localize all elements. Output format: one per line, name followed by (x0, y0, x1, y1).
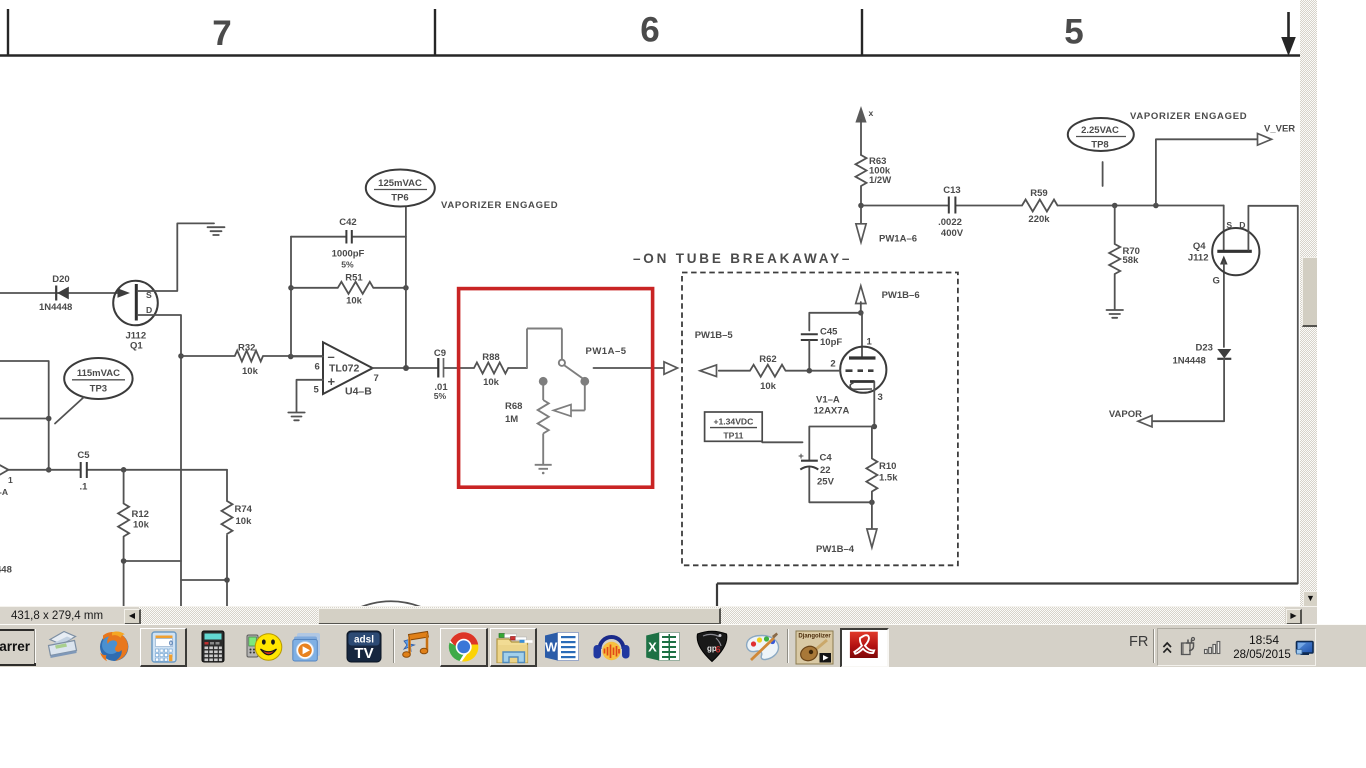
svg-text:6: 6 (716, 645, 721, 655)
svg-text:R10: R10 (879, 461, 896, 472)
svg-text:TP8: TP8 (1091, 140, 1108, 151)
svg-text:D: D (146, 305, 152, 315)
svg-text:10k: 10k (242, 366, 259, 377)
svg-text:R59: R59 (1030, 188, 1047, 199)
svg-text:220k: 220k (1028, 214, 1050, 225)
svg-text:10pF: 10pF (820, 337, 842, 348)
svg-text:VAPOR: VAPOR (1109, 409, 1142, 420)
svg-text:PW1B–5: PW1B–5 (695, 330, 734, 341)
svg-text:1.5k: 1.5k (879, 473, 898, 484)
svg-text:PW1A–6: PW1A–6 (879, 234, 917, 245)
svg-text:10k: 10k (760, 381, 777, 392)
svg-text:TV: TV (354, 645, 373, 662)
svg-text:TP3: TP3 (90, 384, 107, 395)
svg-text:S: S (146, 290, 152, 300)
svg-text:.0022: .0022 (938, 217, 962, 228)
svg-text:25V: 25V (817, 477, 835, 488)
svg-text:10k: 10k (236, 516, 253, 527)
svg-text:C9: C9 (434, 348, 446, 359)
svg-text:Q1: Q1 (130, 341, 143, 352)
svg-text:115mVAC: 115mVAC (77, 368, 120, 379)
svg-text:R88: R88 (482, 352, 499, 363)
svg-text:R51: R51 (345, 273, 363, 284)
svg-text:5%: 5% (434, 391, 447, 401)
svg-text:1: 1 (8, 475, 13, 485)
svg-text:U4–B: U4–B (345, 386, 372, 398)
svg-text:1N4448: 1N4448 (1173, 356, 1206, 367)
svg-text:VAPORIZER ENGAGED: VAPORIZER ENGAGED (1130, 111, 1247, 122)
svg-text:C42: C42 (339, 217, 356, 228)
svg-text:10k: 10k (346, 296, 363, 307)
svg-text:PW1B–6: PW1B–6 (882, 290, 920, 301)
svg-text:Q4: Q4 (1193, 241, 1206, 252)
svg-text:3: 3 (878, 392, 883, 403)
svg-text:10k: 10k (483, 377, 500, 388)
svg-text:-A: -A (0, 487, 8, 497)
svg-text:PW1B–4: PW1B–4 (816, 544, 855, 555)
svg-text:C4: C4 (820, 453, 833, 464)
svg-text:1/2W: 1/2W (869, 175, 891, 186)
svg-text:1: 1 (867, 337, 873, 348)
svg-text:adsl: adsl (354, 635, 374, 646)
svg-text:VAPORIZER ENGAGED: VAPORIZER ENGAGED (441, 200, 558, 211)
svg-text:7: 7 (212, 14, 231, 53)
svg-text:x: x (869, 108, 874, 118)
svg-text:R68: R68 (505, 401, 522, 412)
svg-text:5: 5 (1064, 13, 1083, 52)
svg-text:12AX7A: 12AX7A (814, 406, 850, 417)
svg-text:448: 448 (0, 565, 12, 576)
svg-text:R62: R62 (759, 354, 776, 365)
svg-text:10k: 10k (133, 520, 150, 531)
svg-text:1M: 1M (505, 414, 518, 425)
svg-text:6: 6 (315, 362, 320, 373)
svg-text:J112: J112 (1188, 253, 1209, 264)
svg-text:C45: C45 (820, 327, 838, 338)
svg-text:R12: R12 (132, 509, 149, 520)
svg-text:0: 0 (169, 641, 173, 648)
svg-text:X: X (648, 640, 657, 655)
svg-text:400V: 400V (941, 228, 964, 239)
svg-text:2: 2 (830, 359, 835, 370)
svg-text:125mVAC: 125mVAC (378, 178, 422, 189)
svg-text:R32: R32 (238, 343, 255, 354)
svg-text:5%: 5% (341, 260, 354, 270)
svg-text:1N4448: 1N4448 (39, 302, 72, 313)
svg-text:C5: C5 (77, 450, 90, 461)
svg-text:+: + (798, 451, 804, 462)
svg-text:58k: 58k (1123, 255, 1140, 266)
svg-text:V1–A: V1–A (816, 395, 840, 406)
svg-text:TL072: TL072 (329, 363, 360, 375)
svg-text:V_VER: V_VER (1264, 124, 1295, 135)
svg-text:22: 22 (820, 465, 831, 476)
svg-text:.1: .1 (80, 482, 89, 493)
svg-text:W: W (545, 640, 558, 655)
svg-text:Djangolizer: Djangolizer (798, 634, 831, 640)
svg-text:+: + (328, 374, 336, 389)
svg-text:7: 7 (374, 373, 379, 384)
svg-text:C13: C13 (943, 185, 960, 196)
svg-text:5: 5 (314, 385, 320, 396)
svg-text:2.25VAC: 2.25VAC (1081, 125, 1119, 136)
svg-text:TP11: TP11 (723, 431, 743, 441)
svg-text:6: 6 (640, 11, 659, 50)
svg-text:D20: D20 (52, 274, 69, 285)
svg-text:+1.34VDC: +1.34VDC (713, 417, 753, 427)
svg-text:PW1A–5: PW1A–5 (586, 346, 627, 357)
svg-text:1000pF: 1000pF (332, 249, 365, 260)
svg-text:R74: R74 (235, 504, 253, 515)
svg-text:–ON TUBE BREAKAWAY–: –ON TUBE BREAKAWAY– (633, 251, 852, 266)
svg-text:D23: D23 (1196, 343, 1213, 354)
svg-text:G: G (1213, 276, 1220, 287)
svg-text:TP6: TP6 (391, 193, 408, 204)
svg-text:D: D (1239, 220, 1245, 230)
svg-text:S: S (1226, 220, 1232, 230)
